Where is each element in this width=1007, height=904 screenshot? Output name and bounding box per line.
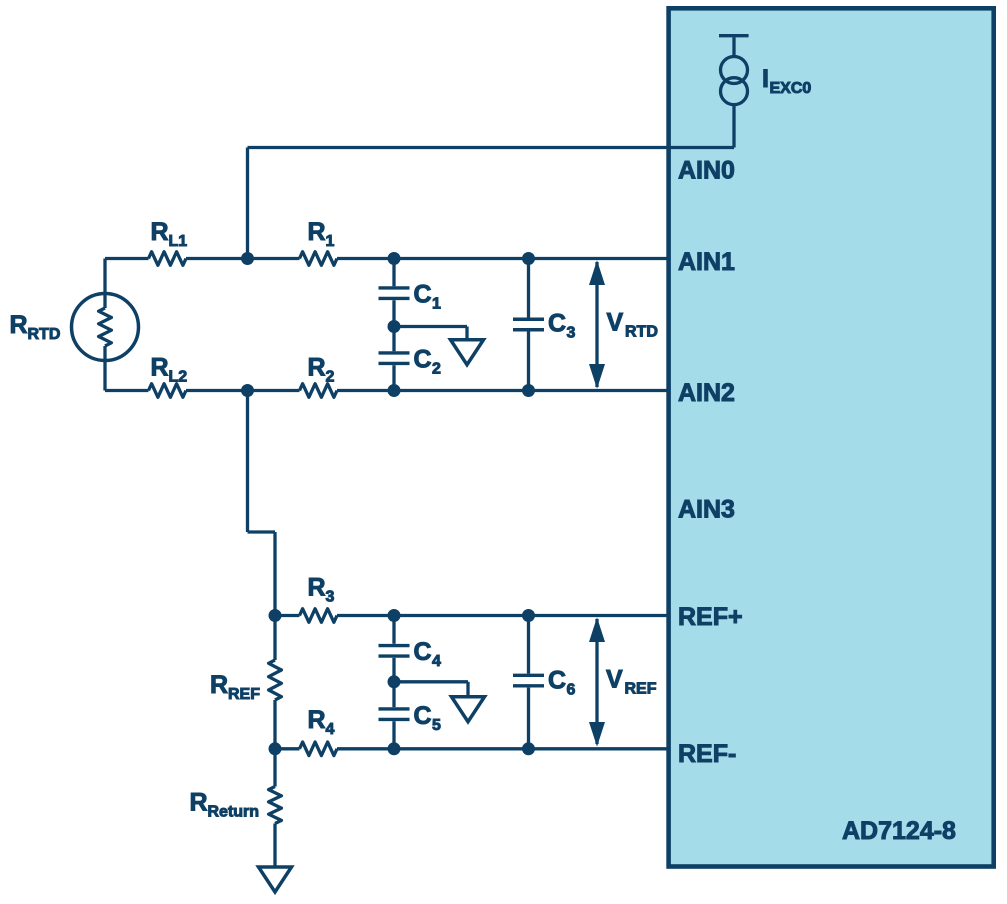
svg-text:EXC0: EXC0 bbox=[770, 80, 812, 97]
svg-text:C: C bbox=[548, 310, 566, 338]
svg-text:V: V bbox=[607, 309, 624, 337]
svg-text:R: R bbox=[210, 671, 228, 699]
svg-text:REF: REF bbox=[625, 680, 657, 697]
svg-text:1: 1 bbox=[326, 233, 335, 250]
svg-text:AIN1: AIN1 bbox=[678, 248, 735, 276]
svg-text:REF-: REF- bbox=[678, 740, 736, 768]
svg-text:V: V bbox=[606, 666, 623, 694]
svg-text:L2: L2 bbox=[169, 368, 188, 385]
svg-text:3: 3 bbox=[567, 324, 576, 341]
svg-text:AD7124-8: AD7124-8 bbox=[842, 817, 956, 845]
svg-text:5: 5 bbox=[432, 717, 441, 734]
svg-text:R: R bbox=[308, 574, 326, 602]
svg-text:R: R bbox=[10, 311, 28, 339]
svg-text:C: C bbox=[548, 667, 566, 695]
svg-text:C: C bbox=[414, 281, 432, 309]
svg-text:2: 2 bbox=[326, 368, 335, 385]
svg-text:R: R bbox=[151, 218, 169, 246]
svg-text:RTD: RTD bbox=[625, 323, 658, 340]
svg-text:R: R bbox=[308, 218, 326, 246]
svg-text:AIN3: AIN3 bbox=[678, 496, 735, 524]
svg-text:6: 6 bbox=[567, 681, 576, 698]
svg-text:R: R bbox=[190, 789, 208, 817]
svg-text:REF: REF bbox=[228, 686, 260, 703]
svg-text:R: R bbox=[308, 706, 326, 734]
svg-text:4: 4 bbox=[326, 721, 335, 738]
svg-text:L1: L1 bbox=[169, 233, 188, 250]
svg-text:R: R bbox=[151, 354, 169, 382]
svg-text:REF+: REF+ bbox=[678, 603, 743, 631]
svg-text:1: 1 bbox=[432, 295, 441, 312]
svg-text:R: R bbox=[308, 354, 326, 382]
svg-text:I: I bbox=[762, 65, 769, 93]
svg-text:AIN0: AIN0 bbox=[678, 157, 735, 185]
svg-text:RTD: RTD bbox=[28, 326, 61, 343]
svg-text:2: 2 bbox=[432, 360, 441, 377]
svg-text:C: C bbox=[414, 702, 432, 730]
svg-text:Return: Return bbox=[208, 803, 260, 820]
svg-text:4: 4 bbox=[432, 653, 441, 670]
svg-text:AIN2: AIN2 bbox=[678, 379, 735, 407]
svg-text:C: C bbox=[414, 638, 432, 666]
svg-text:3: 3 bbox=[326, 588, 335, 605]
svg-text:C: C bbox=[414, 346, 432, 374]
